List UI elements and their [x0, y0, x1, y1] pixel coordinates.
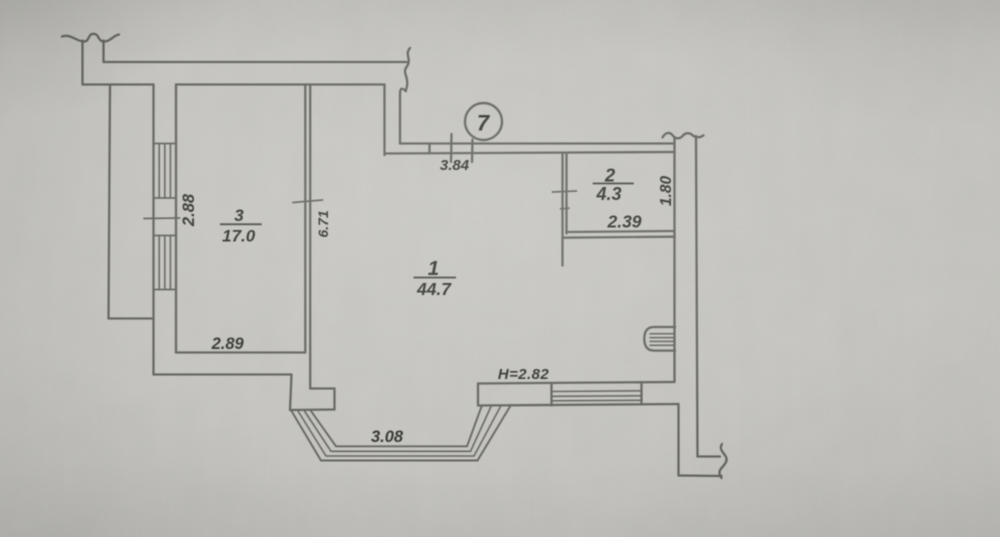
svg-text:2: 2 [604, 165, 616, 186]
svg-text:2.39: 2.39 [606, 212, 641, 232]
partition room3/room1 right line [309, 85, 311, 389]
room 2 bottom wall lower line [563, 237, 675, 238]
right exterior wall outer line [696, 136, 698, 457]
svg-text:3: 3 [234, 206, 244, 225]
room 1 / room 2 top wall upper line [400, 142, 673, 144]
room 2 left partition inner line [565, 153, 567, 234]
bay window glazing line 2 [298, 407, 501, 457]
wall break symbol top-right [663, 133, 704, 138]
sill block right edge [550, 384, 552, 406]
svg-text:6.71: 6.71 [315, 210, 331, 237]
top exterior wall inner line (left of window column) [83, 83, 154, 85]
corner: wall drop outer line with curve into break [400, 89, 406, 144]
svg-text:2.89: 2.89 [211, 335, 245, 353]
window W1 mid tick upper [154, 197, 177, 199]
room 3 bottom wall inner line [176, 351, 305, 353]
window W2 glazing lines [552, 391, 642, 401]
room 3 label underline [220, 223, 262, 225]
wall stub left line [81, 41, 83, 85]
window W1 bottom tick [154, 289, 177, 291]
bay window inner line [311, 407, 482, 447]
corner: wall drop to room 1 top wall, inner line [383, 85, 385, 156]
svg-text:1: 1 [428, 257, 439, 280]
window W1 upper glazing lines [159, 144, 170, 199]
partition room3/room1 left line [304, 85, 306, 353]
vent/radiator symbol outline [644, 327, 675, 351]
vent/radiator inner lines [650, 334, 675, 345]
sill block left edge [477, 384, 479, 406]
window W1 top tick [154, 143, 177, 145]
dimension tick on room 2 partition [553, 191, 577, 192]
svg-text:3.84: 3.84 [440, 157, 470, 174]
room 2 left partition outer line [561, 153, 563, 266]
circle callout 7 [465, 103, 502, 140]
left outline (balcony edge) bottom [109, 317, 154, 319]
bottom-right wall outer corner line [698, 455, 721, 457]
left wall of room 3 inner line [175, 85, 177, 353]
top exterior wall outer line [104, 61, 407, 63]
wall break symbol bottom-right [719, 444, 726, 478]
dimension tick left of 3.84 [450, 134, 453, 162]
svg-text:7: 7 [477, 111, 491, 136]
bottom wall of room 1 outer line [478, 404, 679, 406]
window W1 lower glazing lines [159, 236, 170, 290]
wall block step right edge [333, 389, 335, 410]
room 1 label underline [414, 277, 457, 279]
svg-text:1.80: 1.80 [658, 176, 675, 207]
small tick on room 2 partition [561, 207, 570, 210]
wall stub right line [102, 41, 104, 63]
window edge tick in top wall [428, 144, 430, 154]
wall block left edge [290, 375, 292, 411]
svg-text:17.0: 17.0 [222, 227, 256, 246]
svg-text:3.08: 3.08 [371, 428, 404, 446]
dimension tick for 2.88 [144, 217, 180, 220]
dimension tick for 6.71 [293, 200, 323, 203]
wall block step top [310, 387, 334, 389]
room 1 / room 2 top wall lower line [385, 152, 674, 154]
wall break symbol top-left [62, 34, 119, 42]
window W1 mid tick lower [154, 235, 177, 237]
wall block bottom edge [290, 408, 335, 411]
bottom-right wall drop inner line [677, 404, 679, 476]
svg-text:H=2.82: H=2.82 [498, 366, 549, 383]
bay window glazing line 3 [305, 407, 492, 452]
wall break symbol at top wall right end [405, 48, 410, 91]
bay window outer line [292, 407, 511, 461]
bottom-right wall drop bottom line [679, 474, 722, 477]
dimension tick below circle 7 [471, 140, 474, 163]
left outline (balcony edge) vertical [109, 85, 111, 319]
left wall of room 3 outer line [152, 85, 154, 375]
svg-text:4.3: 4.3 [595, 184, 621, 204]
room 2 bottom wall upper line [567, 231, 675, 232]
svg-text:2.88: 2.88 [180, 193, 198, 227]
room 2 label underline [593, 183, 634, 185]
bottom wall of room 1 inner line [478, 382, 675, 384]
svg-text:44.7: 44.7 [416, 279, 452, 299]
top exterior wall inner line (room 3 and room 1) [176, 83, 385, 85]
room 3 bottom wall outer line [154, 373, 292, 375]
right exterior wall inner line [673, 137, 675, 382]
window W2 right tick [640, 383, 642, 405]
